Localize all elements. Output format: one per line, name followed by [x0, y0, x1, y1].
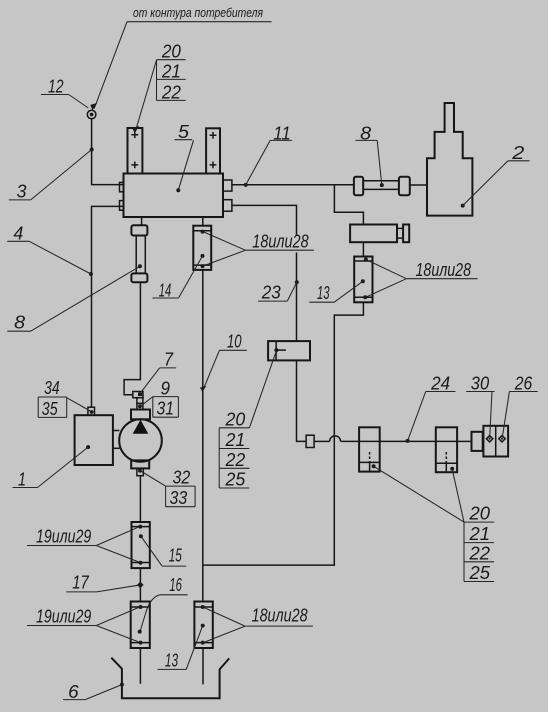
- label 16: [141, 574, 188, 630]
- svg-text:31: 31: [157, 398, 175, 419]
- svg-text:26: 26: [514, 372, 533, 393]
- hose 13 (upper): [354, 257, 372, 303]
- svg-text:22: 22: [225, 449, 246, 470]
- label 23: [258, 282, 297, 303]
- hose 13 (bottom): [194, 602, 212, 649]
- svg-text:4: 4: [13, 223, 23, 244]
- port left 1: [120, 182, 124, 191]
- wire: block lower-right port to line 23 (gap at label overlap): [232, 205, 297, 236]
- node junction (leader 3 target): [90, 148, 94, 152]
- wire regulator B to valve block: [457, 440, 471, 442]
- shaft coupling lines: [113, 430, 120, 432]
- svg-text:5: 5: [178, 121, 190, 142]
- svg-text:7: 7: [164, 348, 174, 369]
- wire: block upper-right port to tool 2: [232, 184, 354, 186]
- label 18или28 (middle, near 14): [204, 230, 314, 265]
- manifold wire with hop over line: [314, 440, 330, 442]
- tank 6: [111, 658, 229, 699]
- wire: hose 13 upper down-left-down long run to junction with line 10: [203, 302, 364, 565]
- wire pump to hose 15: [139, 476, 141, 522]
- port left 2: [120, 201, 124, 211]
- svg-text:25: 25: [469, 562, 491, 583]
- svg-text:32: 32: [173, 467, 191, 488]
- hose 14: [193, 226, 211, 270]
- fitting 31: [137, 398, 143, 410]
- svg-text:6: 6: [68, 681, 79, 702]
- svg-text:3: 3: [17, 180, 28, 201]
- port right 2: [223, 200, 232, 212]
- svg-text:19или29: 19или29: [36, 605, 91, 626]
- label 24: [408, 372, 456, 441]
- label 13 (upper): [309, 281, 363, 303]
- wire lubricator to hose 13 upper: [362, 242, 364, 256]
- stub block bottom to hose 14: [202, 217, 204, 226]
- node junction (leader 11 target): [244, 183, 248, 187]
- label 2: [463, 142, 530, 205]
- svg-text:9: 9: [161, 377, 171, 398]
- connection point 12 (circle symbol): [87, 110, 96, 119]
- svg-text:20: 20: [225, 408, 246, 429]
- hose 16: [131, 602, 150, 649]
- label 14: [153, 256, 203, 301]
- label 18или28 (right): [367, 259, 478, 297]
- filter F-left on block top: [128, 128, 143, 174]
- node junction (leader 4 target): [89, 272, 93, 276]
- svg-text:12: 12: [48, 75, 64, 96]
- label 13 (bottom): [158, 626, 203, 671]
- connector square on manifold: [306, 435, 314, 447]
- svg-text:23: 23: [261, 282, 282, 303]
- wire: hose 14 down to hose 13 bottom (line 10): [202, 270, 204, 602]
- svg-text:18или28: 18или28: [416, 259, 472, 280]
- svg-text:1: 1: [18, 468, 26, 489]
- svg-text:8: 8: [14, 312, 26, 333]
- wire: damper 8 down with jog to pump inlet valve: [124, 282, 140, 395]
- label stack 20/21/22/25 (right): [373, 466, 494, 583]
- label 17: [66, 571, 138, 592]
- svg-text:22: 22: [161, 81, 182, 102]
- label 12: [41, 75, 88, 108]
- svg-text:15: 15: [169, 544, 182, 565]
- label 7: [141, 348, 176, 392]
- label 3: [9, 150, 92, 202]
- svg-text:21: 21: [161, 60, 181, 81]
- valve block 5: [124, 174, 224, 218]
- svg-text:22: 22: [469, 542, 491, 563]
- label stack 20/21/22 (top): [132, 40, 186, 133]
- pneumatic tool 2: [427, 103, 472, 216]
- accumulator 8 (horizontal, on line to tool): [354, 177, 410, 196]
- svg-text:35: 35: [42, 398, 58, 419]
- svg-text:30: 30: [471, 372, 490, 393]
- wire: block lower-left port to left rail down to motor: [92, 206, 124, 407]
- label 8 (left): [7, 266, 140, 332]
- filter F-right on block top: [206, 128, 220, 173]
- label 18или28 (bottom): [204, 604, 313, 642]
- wire branch down to lubricator: [334, 185, 363, 225]
- label 11: [246, 122, 292, 185]
- label stack 20/21/22/25 (left): [219, 351, 276, 490]
- wire hose 15 to hose 16: [139, 568, 141, 601]
- damper 8 (vertical cylinder): [131, 225, 147, 282]
- hose 15: [132, 522, 150, 568]
- valve block 30/26: [483, 426, 508, 457]
- wire hose 16 into tank: [139, 648, 141, 684]
- motor top fitting (34/35 target): [88, 407, 95, 415]
- label 15: [141, 536, 186, 566]
- node junction (leader 24 target): [406, 439, 410, 443]
- regulator (20/21/22/25 right target A): [359, 427, 380, 471]
- label 1: [13, 447, 89, 489]
- label 10: [200, 330, 247, 392]
- regulator (20/21/22/25 right target B): [436, 427, 457, 472]
- label 4: [7, 223, 91, 274]
- svg-text:10: 10: [227, 330, 242, 351]
- pump bottom fitting (32/33 target): [137, 468, 143, 475]
- svg-text:2: 2: [511, 142, 525, 163]
- svg-text:21: 21: [225, 429, 246, 450]
- wire: pressure switch down to manifold: [297, 360, 307, 441]
- label 19или29 (lower): [27, 605, 138, 641]
- connector of valve block 26: [472, 432, 483, 451]
- svg-text:20: 20: [469, 502, 491, 523]
- label stack 34/35: [38, 377, 90, 419]
- label 5: [175, 121, 194, 192]
- label 26: [502, 372, 537, 437]
- node junction (leader 23 target): [295, 280, 299, 284]
- svg-text:18или28: 18или28: [252, 230, 309, 251]
- wire accumulator to tool 2: [410, 184, 427, 186]
- pump (circle with triangle): [119, 410, 162, 469]
- lubricator (horizontal body): [350, 225, 409, 243]
- svg-text:18или28: 18или28: [252, 604, 309, 625]
- svg-text:14: 14: [159, 279, 172, 300]
- wire hose 13 bottom into tank: [202, 648, 204, 684]
- node junction 17 (diamond): [137, 582, 144, 589]
- pressure switch (20/21/22/25 left target): [268, 341, 310, 360]
- label stack 32/33: [142, 467, 196, 509]
- label 19или29 (upper): [27, 525, 138, 561]
- svg-text:21: 21: [469, 523, 490, 544]
- port right 1: [223, 180, 232, 191]
- node: от контура потребителя (from consumer circuit) label: [90, 6, 271, 110]
- valve 9: [133, 392, 143, 398]
- svg-text:17: 17: [72, 571, 89, 592]
- label 6: [63, 681, 122, 702]
- label 30: [466, 372, 494, 437]
- svg-text:13: 13: [317, 282, 330, 303]
- svg-text:от контура потребителя: от контура потребителя: [133, 6, 263, 20]
- svg-text:34: 34: [44, 377, 60, 398]
- svg-text:19или29: 19или29: [36, 525, 91, 546]
- wire: circle 12 down to block upper-left port: [92, 119, 124, 185]
- label 8 (top right): [356, 122, 382, 185]
- motor 1: [75, 415, 113, 465]
- label stack 9/31: [142, 377, 179, 418]
- svg-text:25: 25: [225, 469, 246, 490]
- svg-text:16: 16: [169, 574, 182, 595]
- stub block bottom to damper 8: [141, 217, 143, 225]
- svg-text:13: 13: [165, 649, 179, 670]
- svg-text:24: 24: [430, 372, 450, 393]
- svg-text:33: 33: [170, 487, 188, 508]
- wire between regulators: [380, 440, 436, 442]
- svg-text:20: 20: [161, 40, 182, 61]
